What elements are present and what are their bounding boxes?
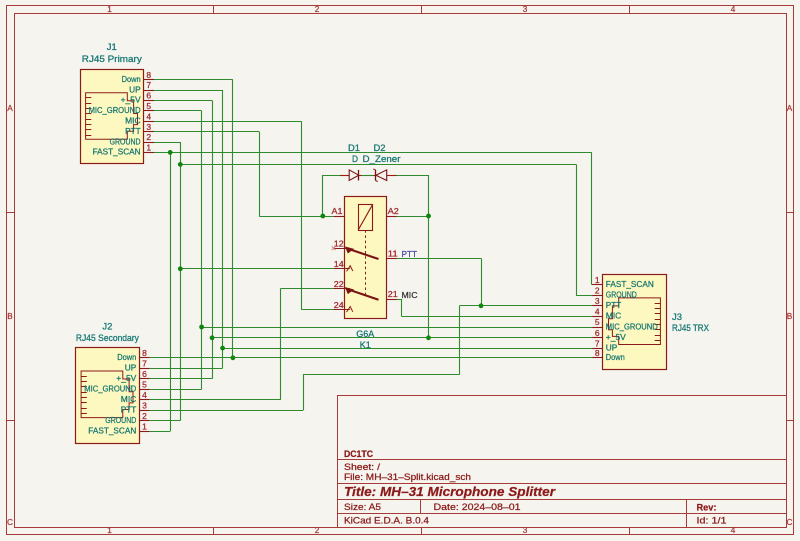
svg-text:8: 8 bbox=[595, 348, 600, 358]
svg-text:KiCad E.D.A. B.0.4: KiCad E.D.A. B.0.4 bbox=[344, 516, 429, 527]
svg-text:MIC: MIC bbox=[121, 394, 137, 404]
svg-text:1: 1 bbox=[142, 422, 147, 432]
svg-text:6: 6 bbox=[595, 328, 600, 338]
svg-text:J1: J1 bbox=[107, 42, 117, 52]
svg-text:DC1TC: DC1TC bbox=[344, 449, 373, 459]
svg-text:A: A bbox=[787, 104, 793, 113]
svg-text:Id: 1/1: Id: 1/1 bbox=[697, 516, 727, 526]
svg-text:+_5V: +_5V bbox=[121, 95, 141, 105]
svg-text:7: 7 bbox=[146, 80, 151, 90]
svg-text:UP: UP bbox=[606, 342, 618, 352]
svg-text:6: 6 bbox=[146, 91, 151, 101]
svg-text:4: 4 bbox=[146, 111, 151, 121]
svg-text:GROUND: GROUND bbox=[110, 136, 141, 146]
svg-text:1: 1 bbox=[107, 526, 112, 535]
svg-text:RJ45 Primary: RJ45 Primary bbox=[82, 54, 143, 64]
svg-text:1: 1 bbox=[595, 275, 600, 285]
svg-text:MIC_GROUND: MIC_GROUND bbox=[606, 321, 658, 331]
svg-text:GROUND: GROUND bbox=[105, 415, 136, 425]
svg-text:MIC_GROUND: MIC_GROUND bbox=[84, 384, 136, 394]
svg-text:UP: UP bbox=[129, 84, 141, 94]
svg-text:8: 8 bbox=[146, 70, 151, 80]
svg-text:A: A bbox=[7, 104, 13, 113]
svg-text:22: 22 bbox=[334, 279, 344, 289]
svg-text:7: 7 bbox=[595, 338, 600, 348]
svg-text:+_5V: +_5V bbox=[116, 373, 136, 383]
svg-text:MIC: MIC bbox=[402, 290, 418, 300]
svg-text:4: 4 bbox=[142, 390, 147, 400]
svg-text:3: 3 bbox=[142, 401, 147, 411]
svg-text:Rev:: Rev: bbox=[697, 503, 717, 513]
svg-text:+_5V: +_5V bbox=[606, 332, 626, 342]
svg-text:D2: D2 bbox=[374, 143, 386, 153]
svg-text:RJ45 TRX: RJ45 TRX bbox=[672, 323, 709, 333]
svg-text:8: 8 bbox=[142, 348, 147, 358]
svg-text:24: 24 bbox=[334, 300, 344, 310]
svg-text:6: 6 bbox=[142, 369, 147, 379]
svg-text:Down: Down bbox=[122, 74, 141, 84]
svg-text:UP: UP bbox=[125, 363, 137, 373]
svg-text:Down: Down bbox=[606, 352, 625, 362]
svg-text:A1: A1 bbox=[332, 206, 343, 216]
svg-text:14: 14 bbox=[334, 259, 344, 269]
svg-text:2: 2 bbox=[146, 132, 151, 142]
svg-text:Title: MH–31 Microphone Splitt: Title: MH–31 Microphone Splitter bbox=[344, 484, 556, 499]
svg-text:RJ45 Secondary: RJ45 Secondary bbox=[76, 333, 140, 343]
svg-text:MIC_GROUND: MIC_GROUND bbox=[89, 105, 141, 115]
svg-text:J3: J3 bbox=[672, 312, 682, 322]
svg-text:4: 4 bbox=[731, 526, 736, 535]
svg-text:11: 11 bbox=[388, 248, 398, 258]
svg-text:FAST_SCAN: FAST_SCAN bbox=[606, 279, 654, 289]
svg-text:1: 1 bbox=[107, 5, 112, 14]
svg-text:4: 4 bbox=[595, 307, 600, 317]
svg-text:5: 5 bbox=[595, 317, 600, 327]
svg-text:GROUND: GROUND bbox=[606, 289, 637, 299]
svg-text:3: 3 bbox=[595, 296, 600, 306]
svg-text:B: B bbox=[7, 312, 13, 321]
svg-text:3: 3 bbox=[146, 122, 151, 132]
svg-text:Sheet: /: Sheet: / bbox=[344, 462, 381, 472]
svg-text:3: 3 bbox=[523, 5, 528, 14]
svg-text:Size: A5: Size: A5 bbox=[344, 502, 381, 513]
svg-text:A2: A2 bbox=[388, 206, 399, 216]
svg-text:MIC: MIC bbox=[125, 116, 141, 126]
svg-text:5: 5 bbox=[142, 380, 147, 390]
svg-text:J2: J2 bbox=[102, 322, 112, 332]
svg-text:2: 2 bbox=[595, 285, 600, 295]
svg-text:PTT: PTT bbox=[402, 249, 418, 259]
svg-text:Date: 2024–08–01: Date: 2024–08–01 bbox=[434, 502, 521, 513]
svg-text:FAST_SCAN: FAST_SCAN bbox=[93, 147, 141, 157]
svg-text:D: D bbox=[352, 154, 358, 164]
svg-text:1: 1 bbox=[146, 143, 151, 153]
svg-text:2: 2 bbox=[315, 526, 320, 535]
svg-text:C: C bbox=[7, 518, 13, 527]
svg-text:File: MH–31–Split.kicad_sch: File: MH–31–Split.kicad_sch bbox=[344, 472, 471, 482]
svg-text:PTT: PTT bbox=[125, 126, 141, 136]
svg-text:D_Zener: D_Zener bbox=[363, 154, 401, 164]
svg-text:C: C bbox=[787, 518, 793, 527]
svg-text:7: 7 bbox=[142, 359, 147, 369]
svg-text:PTT: PTT bbox=[121, 405, 137, 415]
svg-text:D1: D1 bbox=[348, 143, 360, 153]
svg-text:FAST_SCAN: FAST_SCAN bbox=[88, 426, 136, 436]
svg-text:21: 21 bbox=[388, 289, 398, 299]
svg-text:2: 2 bbox=[142, 411, 147, 421]
svg-text:4: 4 bbox=[731, 5, 736, 14]
svg-text:2: 2 bbox=[315, 5, 320, 14]
svg-text:Down: Down bbox=[117, 352, 136, 362]
svg-text:3: 3 bbox=[523, 526, 528, 535]
svg-text:5: 5 bbox=[146, 101, 151, 111]
svg-text:PTT: PTT bbox=[606, 300, 622, 310]
svg-text:MIC: MIC bbox=[606, 311, 622, 321]
svg-text:B: B bbox=[787, 312, 793, 321]
